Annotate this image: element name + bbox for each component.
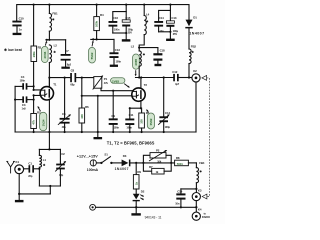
wire caps to ground bbox=[113, 32, 127, 39]
capacitor C13 bbox=[110, 39, 122, 64]
wire tank top node bbox=[39, 132, 60, 150]
svg-text:22p: 22p bbox=[28, 174, 33, 178]
capacitor C19 bbox=[175, 188, 197, 209]
capacitor C7 bbox=[61, 40, 72, 67]
svg-text:1k: 1k bbox=[134, 182, 138, 185]
wire main 0V rail bbox=[15, 131, 196, 133]
svg-text:D2: D2 bbox=[141, 190, 145, 194]
svg-text:5V62: 5V62 bbox=[90, 52, 94, 59]
capacitor C11 bbox=[125, 113, 134, 132]
svg-text:L1: L1 bbox=[43, 158, 47, 162]
svg-text:C16: C16 bbox=[113, 16, 118, 20]
svg-text:1n5: 1n5 bbox=[22, 106, 27, 110]
svg-text:K2: K2 bbox=[193, 69, 197, 73]
svg-text:C6: C6 bbox=[62, 112, 66, 116]
svg-text:4V65: 4V65 bbox=[134, 59, 138, 66]
voltage callout oval B bbox=[38, 106, 47, 131]
inductor FB4 bbox=[196, 161, 204, 193]
diode D1 bbox=[185, 15, 204, 49]
svg-text:100n: 100n bbox=[114, 27, 120, 31]
LED D2 bbox=[133, 190, 145, 208]
inductor L4 bbox=[139, 5, 149, 48]
transistor T1 bbox=[40, 78, 57, 132]
wire source node T2 bbox=[129, 107, 142, 118]
connector K1 bbox=[15, 160, 29, 174]
svg-text:C4: C4 bbox=[21, 75, 25, 79]
resistor R3 bbox=[31, 5, 42, 87]
wire P1 to gate2 T2 bbox=[101, 88, 132, 92]
power plug bbox=[90, 160, 100, 166]
svg-text:P1: P1 bbox=[104, 77, 108, 81]
trimmer potentiometer P1 bbox=[93, 75, 109, 89]
svg-text:L2: L2 bbox=[131, 45, 135, 49]
ground (C15/C16) bbox=[122, 39, 131, 41]
svg-text:1N4007: 1N4007 bbox=[115, 167, 129, 171]
svg-text:FB4: FB4 bbox=[199, 161, 205, 165]
svg-text:100k: 100k bbox=[32, 51, 36, 57]
wire ground bus bottom bbox=[96, 206, 197, 213]
wire K2 down to rail bbox=[195, 82, 197, 132]
svg-text:T1, T2 = BF965, BF966S: T1, T2 = BF965, BF966S bbox=[107, 141, 155, 146]
resistor R7 bbox=[143, 163, 171, 174]
svg-text:C8: C8 bbox=[71, 68, 75, 72]
svg-text:D1: D1 bbox=[193, 15, 197, 19]
svg-text:P2: P2 bbox=[156, 149, 160, 153]
power plug 2 bbox=[90, 204, 96, 210]
capacitor C14 bbox=[154, 5, 170, 33]
connector K2 bbox=[192, 69, 207, 82]
wire top supply rail bbox=[17, 4, 189, 21]
svg-text:100p: 100p bbox=[165, 125, 171, 129]
wire K1 ground bbox=[18, 174, 50, 200]
wire left riser to rail bbox=[14, 86, 16, 132]
svg-text:C11: C11 bbox=[129, 113, 134, 117]
svg-text:100n: 100n bbox=[20, 79, 26, 83]
resistor R8 bbox=[175, 156, 197, 166]
svg-text:1N4007: 1N4007 bbox=[189, 31, 204, 35]
svg-text:C7: C7 bbox=[65, 49, 69, 53]
voltage callout oval E bbox=[146, 109, 154, 129]
capacitor C15 (electrolytic) bbox=[122, 12, 133, 35]
capacitor C12b (electrolytic) bbox=[159, 10, 179, 38]
svg-text:100n: 100n bbox=[114, 125, 120, 129]
svg-text:C13: C13 bbox=[171, 16, 176, 20]
node R4 / C13 bbox=[91, 38, 114, 40]
ground (C13/C14) bbox=[166, 39, 175, 41]
voltage callout oval D bbox=[111, 78, 130, 88]
ground (under rail) bbox=[94, 137, 103, 139]
svg-text:R3: R3 bbox=[38, 45, 42, 49]
inductor L3 bbox=[131, 45, 146, 78]
svg-text:C10: C10 bbox=[19, 16, 24, 20]
svg-text:100: 100 bbox=[140, 119, 144, 124]
ground (C18) bbox=[155, 64, 162, 66]
svg-text:T1: T1 bbox=[53, 83, 57, 87]
inductor L1 bbox=[38, 149, 46, 186]
inductor FB1 bbox=[49, 5, 58, 40]
trimmer capacitor C2 bbox=[55, 149, 66, 186]
svg-text:10k: 10k bbox=[157, 159, 162, 163]
svg-text:100n: 100n bbox=[116, 60, 122, 64]
capacitor C9 bbox=[109, 91, 120, 132]
svg-text:D3: D3 bbox=[123, 154, 127, 158]
svg-text:K3: K3 bbox=[198, 188, 202, 192]
svg-text:1V24: 1V24 bbox=[41, 119, 45, 126]
svg-text:100mA: 100mA bbox=[87, 168, 99, 172]
svg-text:C13: C13 bbox=[115, 48, 120, 52]
trimmer capacitor C6 bbox=[58, 78, 71, 132]
svg-text:100k: 100k bbox=[95, 21, 99, 27]
svg-text:+12V...+15V: +12V...+15V bbox=[77, 154, 99, 158]
svg-text:R6: R6 bbox=[85, 105, 89, 109]
trimmer capacitor C14t bbox=[158, 78, 170, 133]
svg-text:100n: 100n bbox=[126, 125, 132, 129]
svg-text:40p: 40p bbox=[62, 125, 67, 129]
svg-text:940143 - 11: 940143 - 11 bbox=[145, 216, 162, 220]
wire tank bottom bbox=[39, 185, 60, 194]
svg-text:C12: C12 bbox=[172, 70, 177, 74]
diode D3 bbox=[115, 154, 175, 171]
svg-text:68p: 68p bbox=[70, 83, 75, 87]
svg-text:47k: 47k bbox=[32, 120, 36, 125]
svg-text:K4: K4 bbox=[198, 208, 202, 212]
svg-text:25V: 25V bbox=[173, 32, 178, 36]
svg-text:10n: 10n bbox=[175, 202, 180, 206]
svg-text:C9: C9 bbox=[111, 114, 115, 118]
svg-text:L2: L2 bbox=[54, 43, 58, 47]
svg-text:RADIO: RADIO bbox=[202, 216, 210, 219]
transistor T2 bbox=[132, 78, 148, 109]
svg-text:8p2: 8p2 bbox=[67, 62, 72, 66]
wire to ground (rail) bbox=[97, 96, 99, 137]
resistor R5 bbox=[139, 108, 150, 132]
svg-text:L4: L4 bbox=[146, 12, 150, 16]
svg-text:47k: 47k bbox=[104, 81, 109, 85]
voltage callout oval A bbox=[42, 41, 49, 63]
ground (K1) bbox=[15, 200, 24, 202]
ground (D2 node) bbox=[131, 213, 140, 215]
svg-text:5001: 5001 bbox=[177, 162, 183, 166]
svg-text:FB1: FB1 bbox=[52, 11, 58, 15]
wire drain node T2 bbox=[136, 76, 174, 78]
node drain supply (T1) bbox=[46, 39, 66, 41]
svg-text:0V92: 0V92 bbox=[149, 118, 153, 125]
svg-text:4V06: 4V06 bbox=[43, 51, 47, 58]
svg-text:R8: R8 bbox=[176, 156, 180, 160]
wire gate2 T1 bbox=[33, 86, 41, 91]
svg-text:FB2: FB2 bbox=[191, 45, 197, 49]
capacitor C16 bbox=[109, 5, 127, 33]
inductor FB2 bbox=[189, 45, 196, 78]
svg-text:✱ low beat: ✱ low beat bbox=[4, 48, 23, 52]
trimmer potentiometer P2 bbox=[143, 149, 171, 164]
voltage callout oval F bbox=[89, 41, 96, 64]
svg-text:S1: S1 bbox=[104, 152, 108, 156]
svg-text:25V: 25V bbox=[128, 31, 133, 35]
svg-text:33p: 33p bbox=[59, 173, 64, 177]
wire K2 to K3 link bbox=[207, 78, 210, 197]
svg-text:1V93: 1V93 bbox=[112, 80, 119, 84]
ground (C7) bbox=[61, 67, 69, 69]
capacitor C10 bbox=[12, 16, 24, 32]
svg-text:R4: R4 bbox=[100, 13, 104, 17]
wire gate1 T2 bbox=[81, 95, 132, 97]
capacitor C4 bbox=[15, 75, 35, 89]
svg-text:C14: C14 bbox=[165, 111, 170, 115]
wire gate1 T1 bbox=[33, 94, 42, 99]
connector K3 bbox=[192, 188, 207, 212]
svg-text:C1: C1 bbox=[28, 161, 32, 165]
capacitor C1 bbox=[28, 161, 39, 177]
svg-text:R9: R9 bbox=[137, 170, 141, 174]
svg-text:C14: C14 bbox=[159, 16, 164, 20]
capacitor C3 bbox=[15, 96, 35, 110]
resistor R6 bbox=[79, 78, 89, 132]
resistor R4 bbox=[94, 5, 104, 40]
ground (C13) bbox=[110, 65, 118, 67]
capacitor C12 bbox=[172, 70, 192, 86]
voltage callout oval C bbox=[133, 54, 140, 76]
switch S1 bbox=[100, 152, 121, 164]
connector K4 bbox=[192, 208, 210, 221]
svg-text:C15: C15 bbox=[125, 16, 130, 20]
svg-text:C18: C18 bbox=[160, 48, 165, 52]
svg-text:C2: C2 bbox=[61, 152, 65, 156]
ground (C10) bbox=[13, 33, 22, 35]
inductor L2 bbox=[49, 43, 57, 86]
capacitor C18 bbox=[139, 48, 165, 64]
svg-text:T2: T2 bbox=[144, 83, 148, 87]
resistor R9 bbox=[133, 163, 141, 194]
svg-text:C19: C19 bbox=[177, 189, 182, 193]
resistor R2 bbox=[31, 100, 41, 132]
svg-text:100: 100 bbox=[80, 114, 84, 119]
svg-text:R7: R7 bbox=[149, 165, 153, 169]
capacitor C8 bbox=[48, 68, 94, 86]
svg-text:K1: K1 bbox=[16, 160, 20, 164]
antenna bbox=[6, 161, 15, 173]
svg-text:4p7: 4p7 bbox=[175, 82, 180, 86]
